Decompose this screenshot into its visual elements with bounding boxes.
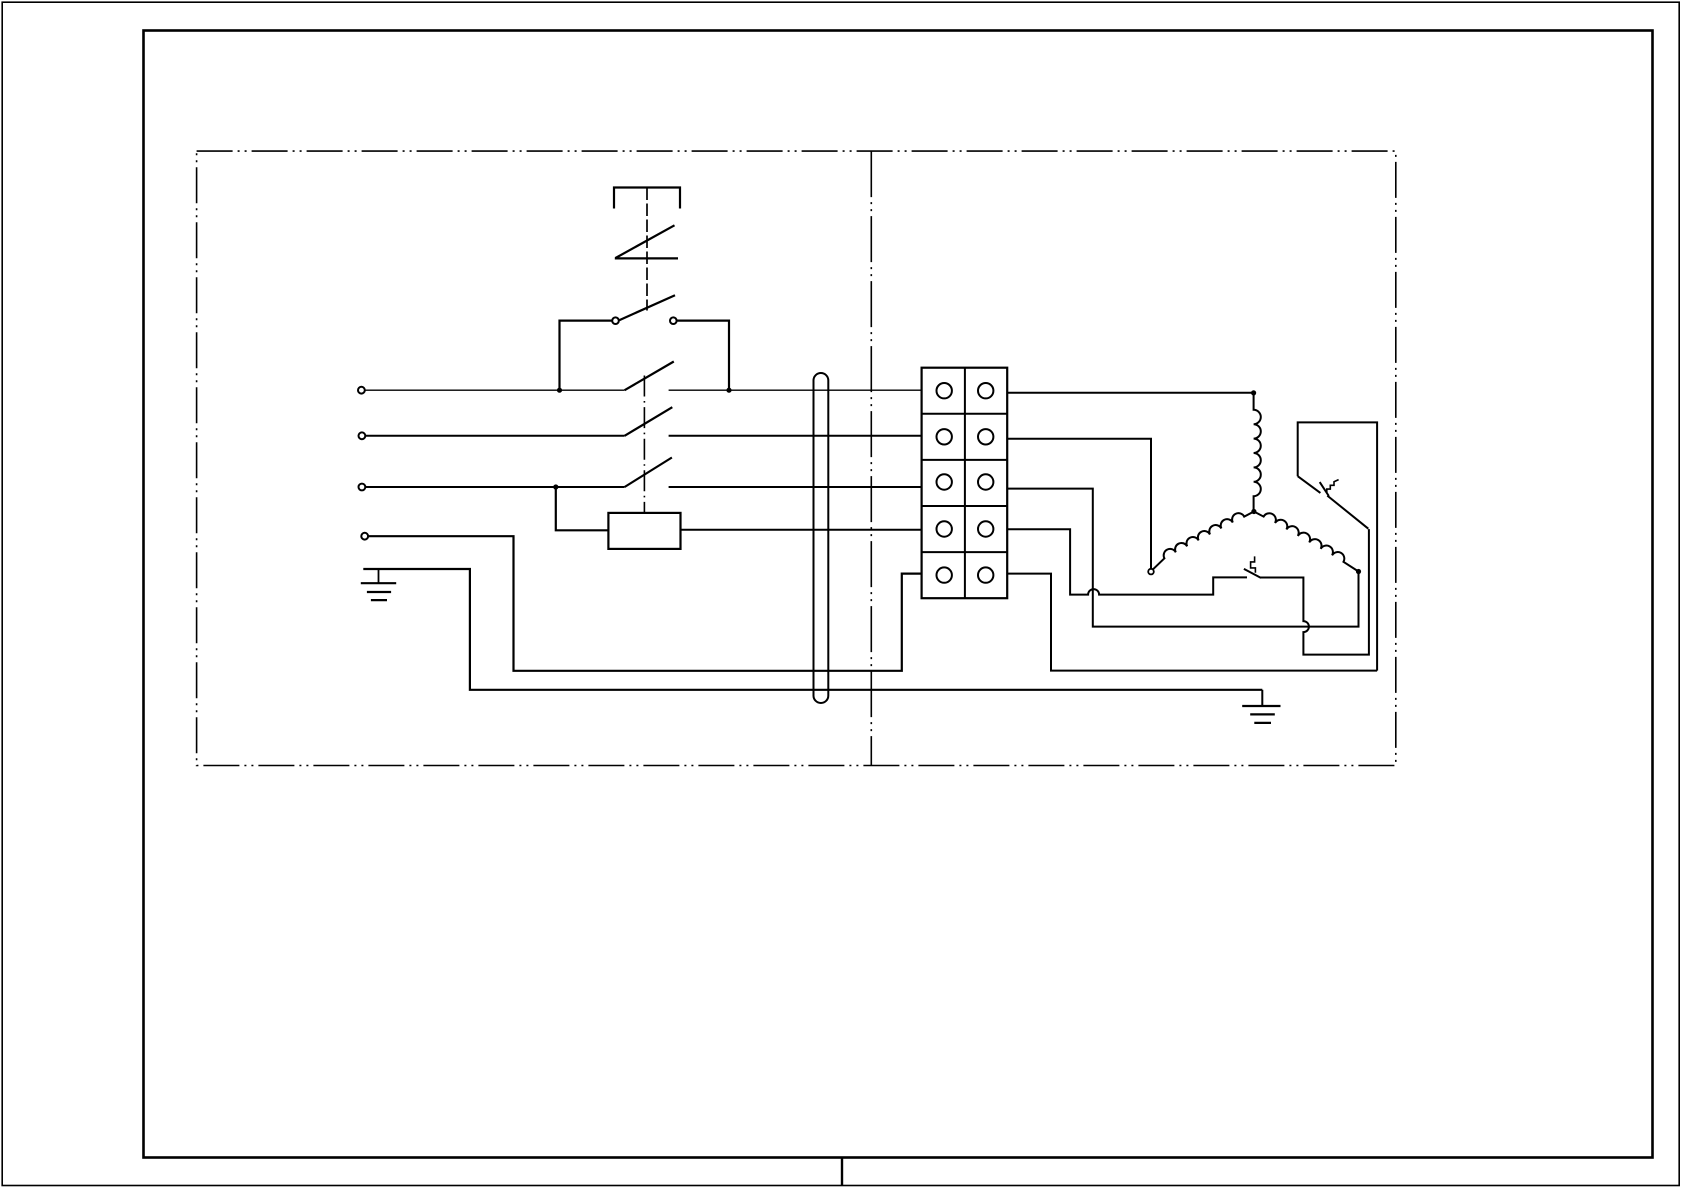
- breaker pole 2 blade: [625, 407, 673, 436]
- thermal protector TH1 lower diagonal: [1327, 496, 1368, 529]
- disconnect switch QS blade: [619, 295, 675, 320]
- winding W2 end terminal (open circle): [1148, 569, 1154, 575]
- thermal protector TH1 top wire: [1298, 422, 1377, 670]
- thermal protector TH1 element (square wave): [1327, 480, 1339, 493]
- terminal block row dividers: [922, 414, 1008, 552]
- input terminal 2: [359, 432, 366, 439]
- wire L3 input segment: [365, 486, 625, 488]
- breaker pole 1 blade: [625, 362, 674, 391]
- wire coil output to terminal row 4: [681, 529, 922, 531]
- input terminal 1: [358, 387, 365, 394]
- breaker pole 3 blade: [625, 458, 672, 488]
- motor winding W1 (vertical coil): [1254, 393, 1261, 512]
- node junction L3-coil feed: [553, 484, 558, 489]
- wire L2 input segment: [365, 435, 625, 437]
- thermal protector TH2 blade: [1244, 569, 1261, 578]
- wire PE (earth): [363, 569, 1262, 690]
- thermal protector TH1 upper diagonal: [1298, 476, 1321, 493]
- circuit breaker QF trip release: [615, 225, 678, 258]
- wire N (neutral): [368, 536, 922, 671]
- node junction winding W1 top: [1251, 390, 1256, 395]
- ground symbol left bars: [361, 583, 396, 600]
- wire L2 to terminal block: [669, 435, 922, 437]
- mechanical linkage (dash-dot): [643, 376, 645, 513]
- wire L1 to terminal block: [669, 389, 922, 391]
- contactor coil (undervoltage release): [608, 513, 680, 549]
- node junction L1-right jumper: [726, 388, 731, 393]
- thermal protector TH2 element (square wave): [1251, 556, 1256, 572]
- cable sleeve (oval): [814, 373, 829, 703]
- disconnect switch QS left contact: [612, 317, 619, 324]
- input terminal 3: [359, 484, 366, 491]
- motor winding W3 (right coil): [1254, 512, 1359, 572]
- circuit breaker QF linkage (dashed): [646, 188, 648, 311]
- node junction L1-left jumper: [557, 388, 562, 393]
- wire L3 to terminal block: [669, 486, 922, 488]
- ground symbol right bars: [1242, 706, 1280, 723]
- ground symbol right stem: [1261, 690, 1263, 706]
- wire U (terminal row1 to winding W1): [1007, 392, 1253, 394]
- disconnect switch QS right contact: [670, 317, 677, 324]
- motor winding W2 (left coil): [1153, 512, 1254, 570]
- terminal block center divider: [964, 368, 966, 599]
- wire coil feed: [556, 487, 609, 530]
- wire TH2 to TH1 (with hop over): [1261, 529, 1369, 655]
- terminal screws right column: [978, 383, 993, 583]
- wire W (terminal row3 to winding W3 end): [1007, 489, 1358, 627]
- enclosure boundary (panel, dash-dot box): [197, 151, 1396, 765]
- node junction star point: [1251, 509, 1256, 514]
- node junction winding W3 end: [1356, 569, 1361, 574]
- wire jumper left (QS to line L1): [560, 321, 613, 391]
- ground symbol left stem: [378, 569, 380, 583]
- input terminal 4 (neutral): [361, 533, 368, 540]
- enclosure divider (bulkhead dash-dot line): [870, 151, 872, 765]
- wire terminal row5 to TH1 (via bottom): [1007, 574, 1377, 671]
- terminal screws left column: [937, 383, 952, 583]
- wire jumper right (QS to line L1): [676, 321, 729, 391]
- wire L1 input segment: [364, 389, 624, 391]
- terminal block outline: [922, 368, 1008, 599]
- thermal protector TH1 blade: [1320, 482, 1329, 496]
- circuit breaker QF operating handle: [614, 188, 680, 209]
- wire V (terminal row2 to winding W2): [1007, 439, 1151, 569]
- wire row4 to thermal switch (with hop over): [1007, 529, 1247, 594]
